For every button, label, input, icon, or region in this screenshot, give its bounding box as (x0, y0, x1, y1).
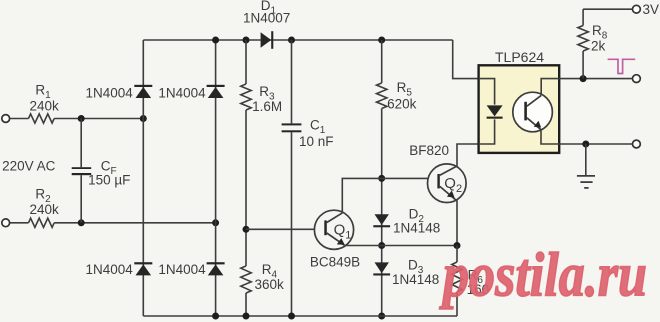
svg-text:3V: 3V (643, 2, 660, 17)
wire: 3V supply (583, 8, 632, 10)
wire: bridge column A vertical (142, 40, 144, 316)
svg-text:BC849B: BC849B (310, 254, 360, 269)
diode 1N4004 (bottom-right of bridge) (207, 262, 225, 264)
node: D2/D3 midpoint (378, 242, 385, 249)
terminal: AC input bottom (2, 219, 10, 227)
resistor R6 160 (456, 246, 458, 263)
node: column E / bottom rail (378, 313, 385, 320)
resistor R1 240k (29, 114, 55, 123)
capacitor C1 10nF (282, 123, 302, 125)
wire: output collector line (559, 78, 632, 80)
wire: bottom rail (143, 315, 457, 317)
wire: column C (R3/R4) (245, 40, 247, 84)
wire: top bus corner down to TLP LED anode pin (453, 40, 479, 79)
terminal: 3V (633, 5, 641, 13)
wire: phototransistor emitter to pin (541, 130, 559, 144)
wire: output emitter line (559, 143, 632, 145)
resistor R8 2k (582, 9, 584, 25)
node: bottom rail / column B (212, 313, 219, 320)
wire: phototransistor collector to pin (541, 79, 559, 96)
svg-text:1N4004: 1N4004 (158, 85, 206, 100)
optocoupler U1 TLP624 box (479, 65, 560, 153)
diode D1 1N4007 (261, 32, 272, 48)
svg-text:1.6M: 1.6M (252, 99, 282, 114)
resistor R3 1.6M (241, 84, 251, 110)
node: ground junction (582, 141, 589, 148)
wire: Q2 emitter down to mid node (456, 200, 458, 245)
svg-text:TLP624: TLP624 (495, 49, 544, 65)
svg-text:2k: 2k (591, 39, 606, 54)
wire: lower input line (10, 222, 29, 224)
capacitor CF 150uF (80, 119, 82, 168)
svg-text:postila.ru: postila.ru (439, 242, 647, 310)
resistor R5 620k (377, 83, 387, 109)
transistor Q1 BC849B (314, 210, 353, 249)
transistor Q2 BF820 (428, 164, 467, 203)
node: R5/D2/Q2-base junction (378, 175, 385, 182)
node: junction R1/CF (78, 115, 85, 122)
terminal: AC input top (2, 115, 10, 123)
node: top bus / R3 (243, 37, 250, 44)
node: top bus / column B (212, 37, 219, 44)
diode 1N4004 (top-left of bridge) (134, 85, 152, 87)
wire: bridge column B vertical (215, 40, 217, 316)
svg-text:620k: 620k (387, 96, 417, 111)
TLP624 internal LED (479, 79, 495, 105)
svg-text:1N4007: 1N4007 (243, 11, 290, 26)
svg-text:1N4148: 1N4148 (392, 272, 439, 287)
diode D2 1N4148 (375, 214, 389, 225)
svg-text:240k: 240k (30, 99, 60, 114)
node: R3/R4 junction to Q1 base (243, 226, 250, 233)
node: emitter/R6 junction (454, 242, 461, 249)
svg-text:BF820: BF820 (409, 143, 449, 158)
svg-text:10 nF: 10 nF (299, 134, 334, 149)
node: R8 junction (580, 75, 587, 82)
wire: column E (R5/D2/D3) (381, 40, 383, 83)
wire: Q1 base wire (246, 228, 325, 230)
terminal: output top (633, 75, 641, 83)
diode 1N4004 (top-right of bridge) (207, 85, 225, 87)
wire: R1 to bridge column A (54, 118, 143, 120)
svg-text:1N4004: 1N4004 (158, 262, 206, 277)
ground symbol (585, 144, 587, 175)
wire: input line from top terminal through to bridge (10, 118, 29, 120)
node: junction R1/bridge (140, 115, 147, 122)
wire: R2 to bridge column B (54, 222, 215, 224)
wire: Q1 collector to Q2 base (through R5/D2 node) (342, 178, 438, 212)
resistor R4 360k (241, 266, 251, 293)
node: top bus / R5 (378, 37, 385, 44)
node: top bus / C1 (288, 37, 295, 44)
diode 1N4004 (bottom-left of bridge) (134, 262, 152, 264)
svg-text:1N4148: 1N4148 (393, 220, 440, 235)
wire: emitter bus D2/D3 mid (345, 245, 458, 247)
svg-text:1N4004: 1N4004 (86, 85, 134, 100)
TLP624 internal phototransistor (513, 92, 553, 132)
svg-text:360k: 360k (255, 277, 285, 292)
wire: Q2 collector up to TLP LED cathode pin (457, 144, 479, 166)
node: bottom rail / C1 (288, 313, 295, 320)
svg-text:1N4004: 1N4004 (86, 262, 134, 277)
node: junction R2/CF (78, 219, 85, 226)
svg-text:150 µF: 150 µF (88, 172, 130, 187)
wire: column D with C1 (291, 40, 293, 123)
svg-text:240k: 240k (30, 202, 60, 217)
node: junction R2/bridge (212, 219, 219, 226)
svg-text:220V AC: 220V AC (2, 159, 56, 174)
diode D3 1N4148 (375, 262, 389, 273)
resistor R2 240k (29, 218, 55, 227)
node: bottom rail / R4 (243, 313, 250, 320)
terminal: output bottom (633, 140, 641, 148)
wire: top bus (143, 39, 452, 41)
pulse waveform icon (608, 59, 636, 73)
